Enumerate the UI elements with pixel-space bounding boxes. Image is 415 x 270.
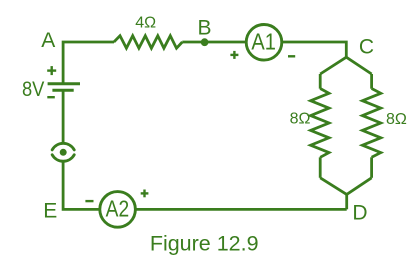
wire left branch diagonal to D vertex and right branch diagonal [320,178,371,195]
ammeter A2 minus sign [85,200,93,202]
svg-text:E: E [43,200,57,223]
svg-text:4Ω: 4Ω [135,15,156,32]
svg-text:8V: 8V [22,78,44,101]
wire plug key up to battery minus plate [62,90,65,143]
wire left branch top vertical [319,74,322,89]
svg-text:A1: A1 [251,28,276,54]
wire split vertex C diagonals to both branches [320,57,371,74]
battery plus sign [47,66,56,75]
svg-text:A2: A2 [106,196,130,222]
ammeter A1 minus sign [288,55,295,57]
ammeter A1 circle [246,25,282,61]
battery V1 8V long plus plate [48,82,80,85]
resistor R1 4ohm zigzag [114,36,182,49]
wire R1 to node B to ammeter A1 [182,41,245,44]
ammeter A1 plus sign [230,51,238,59]
wire corner A: left side up then top-left horizontal to R1 [63,42,114,84]
wire right branch bottom vertical [370,157,373,178]
junction dot node B [201,38,209,46]
wire corner E: ammeter A2 to E then up left side to plug key [63,161,99,210]
wire ammeter A1 to corner C with vertical drop [283,42,347,57]
svg-text:A: A [41,29,55,52]
resistor R2 8ohm zigzag (left branch) [311,89,329,158]
plug key K1 bottom arc [52,155,74,161]
plug key K1 top arc [52,143,74,149]
wire left branch bottom vertical [319,157,322,178]
svg-text:D: D [352,201,367,224]
ammeter A2 circle [100,192,136,228]
svg-text:B: B [197,16,211,39]
wire bottom from D to ammeter A2 [137,208,347,211]
battery minus sign [47,96,55,98]
resistor R3 8ohm zigzag (right branch) [362,89,380,158]
svg-text:C: C [359,35,374,58]
wire right branch top vertical [370,74,373,89]
ammeter A2 plus sign [141,190,149,198]
plug key K1 center dot [60,149,67,156]
battery V1 8V short minus plate [52,89,73,92]
svg-text:8Ω: 8Ω [290,111,311,128]
wire D vertex vertical drop to bottom wire [345,194,348,209]
svg-text:8Ω: 8Ω [386,111,407,128]
svg-text:Figure 12.9: Figure 12.9 [150,231,259,255]
